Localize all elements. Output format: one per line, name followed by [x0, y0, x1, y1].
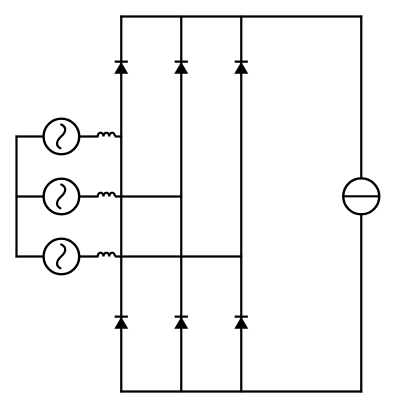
- wire bottom rail: [120, 390, 362, 392]
- wire bridge leg 3: [240, 15, 242, 392]
- wire top rail: [120, 15, 362, 17]
- inductor L3: [98, 253, 115, 257]
- wire V3 to L3: [79, 255, 98, 257]
- diode D3: [234, 62, 248, 74]
- wire phase C left stub: [15, 255, 43, 257]
- wire right top: [360, 15, 362, 178]
- wire V1 to L1: [79, 135, 98, 137]
- wire phase A left stub: [15, 135, 43, 137]
- wire bridge leg 2: [180, 15, 182, 392]
- diode D6: [234, 317, 248, 329]
- source V1: [44, 119, 80, 155]
- diode D1: [114, 62, 128, 74]
- wire V2 to L2: [79, 195, 98, 197]
- wire L1 to leg1: [115, 135, 122, 137]
- inductor L1: [98, 133, 115, 137]
- wire L2 to leg2: [115, 195, 182, 197]
- diode D4: [114, 317, 128, 329]
- source V2: [44, 179, 80, 215]
- inductor L2: [98, 193, 115, 197]
- wire L3 to leg3: [115, 255, 242, 257]
- diode D2: [174, 62, 188, 74]
- wire phase B left stub: [15, 195, 43, 197]
- source V3: [44, 239, 80, 275]
- current source I1: [343, 178, 379, 214]
- wire right bottom: [360, 214, 362, 392]
- wire bridge leg 1: [120, 15, 122, 392]
- wire left bus vertical: [15, 135, 17, 257]
- diode D5: [174, 317, 188, 329]
